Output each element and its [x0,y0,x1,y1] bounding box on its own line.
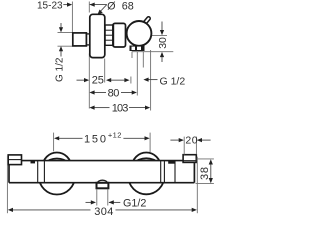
wire: extension line outlet axis (bottom of 30) [132,51,173,53]
component: S-union nut (square) [73,33,87,46]
wire: extension line wall face (lower part, for 25/80/103) [88,54,90,109]
component: S-union pipe stub [86,34,89,45]
component: wall escutcheon (side view) [90,14,105,57]
wire: extension line left of S-union nut [71,2,73,33]
wire: extension line nut bottom [58,45,77,47]
dimension leader G1/2 (bottom port) [86,201,121,203]
wire: extension line outlet left area [130,77,132,84]
dimension leader G 1/2 (side view outlet) [148,79,157,81]
component: centre outlet port nut [97,183,109,189]
svg-text:25: 25 [92,75,104,87]
wire: extension line wall face (upper part) [88,2,90,13]
svg-text:103: 103 [112,103,128,115]
svg-text:G1/2: G1/2 [123,198,146,210]
wire: right end block junction [174,161,176,183]
component: right thermostat knob (top dome) [132,153,161,182]
wire: extension lines for 20 [183,137,185,155]
svg-text:80: 80 [108,88,120,100]
component: right safety stop button [168,161,175,164]
wire: right knob junction lines [160,161,162,183]
component: handle lever tab [142,16,151,26]
dimension 15-23 [63,4,107,6]
svg-text:30: 30 [157,37,169,49]
svg-text:150: 150 [84,134,108,146]
dimension 30 (vertical) [161,22,163,63]
wire: extension line outlet right for G 1/2 leader [142,52,144,68]
svg-text:38: 38 [199,166,211,180]
svg-text:G 1/2: G 1/2 [55,57,66,82]
wire: left knob junction lines [37,161,39,183]
wire: extension line handle axis (top of 30) [151,34,167,36]
wire: extension line 80 (outlet centre) [136,52,138,96]
wire: extension line 103 (handle front) [150,50,152,111]
component: centre outlet port dome [98,180,107,182]
wire: extension line far left (304) [6,156,8,214]
svg-text:304: 304 [94,206,114,218]
wire: extension line escutcheon right face [104,59,106,83]
wire: extension line right union centre (150) [149,133,151,152]
wire: short extension below outlet [131,52,133,59]
dimension leader Ø68 [100,5,107,12]
component: bottom outlet with check valves [130,46,145,52]
component: left shut-off knob (top dome) [43,153,72,182]
dimension 25 [77,79,126,81]
dimension 103 [94,107,146,109]
component: knurled connection nut [105,25,114,45]
component: valve body [113,23,126,47]
component: left union cap [8,155,21,165]
wire: extension line nut top [58,32,73,34]
dimension 150+12 [59,137,145,139]
component: mixer bar top edge [22,160,184,162]
wire: extension line block bottom right (38) [196,183,214,185]
wire: extension lines for bottom G1/2 port [96,189,98,206]
wire: extension line bar top right (38) [197,158,214,160]
wire: extension line left union centre (150) [53,133,55,152]
svg-text:Ø: Ø [107,1,116,13]
component: right end block right edge [193,161,195,183]
svg-text:15-23: 15-23 [37,1,63,12]
svg-text:20: 20 [185,135,198,147]
component: left housing left edge [8,164,10,183]
dimension 80 [94,92,133,94]
wire: extension line far right (304) [196,157,198,214]
svg-text:G 1/2: G 1/2 [160,75,186,87]
dimension 38 (vertical) [210,164,212,180]
dimension G 1/2 (S-union nut, vertical) [60,23,62,57]
component: left shut-off knob (bottom arc) [39,159,75,195]
svg-text:+12: +12 [108,130,122,139]
component: mixer bar bottom edge [9,182,194,184]
mask: bar interior [9,161,194,183]
component: left safety stop button [31,161,36,164]
component: handle knob (circle, side view) [127,21,152,46]
component: right thermostat knob (bottom arc) [128,158,164,194]
dimension 20 [170,139,210,141]
dimension 304 [13,209,193,211]
svg-text:68: 68 [122,1,134,13]
component: right union cap [183,155,196,163]
